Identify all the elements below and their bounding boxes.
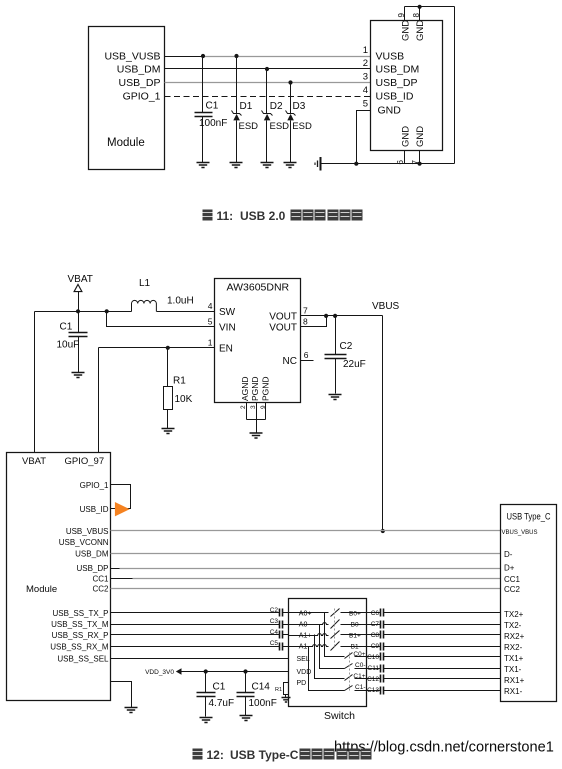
wire GPIO_1 to USB_ID loop bbox=[111, 485, 131, 509]
svg-text:Module: Module bbox=[26, 584, 57, 595]
net label VDD_3V0 with arrow bbox=[145, 668, 181, 676]
wire USB_SS_TX_M bbox=[111, 624, 289, 626]
svg-text:GND: GND bbox=[415, 20, 426, 41]
node junction VBAT/C1 bbox=[76, 309, 80, 313]
svg-text:6: 6 bbox=[304, 350, 309, 360]
svg-text:GND: GND bbox=[378, 105, 402, 117]
ground (under C1 4.7uF) bbox=[200, 718, 213, 723]
svg-text:USB Type-C: USB Type-C bbox=[230, 748, 299, 762]
svg-text:C1: C1 bbox=[206, 101, 219, 112]
switch arm B0+ bbox=[331, 609, 340, 617]
node junction pin7/bottom rail bbox=[418, 162, 422, 166]
wire VOUT pin7 bbox=[301, 315, 383, 317]
wire USB_SS_TX_P bbox=[111, 612, 289, 614]
switch arm C0- bbox=[345, 664, 353, 669]
capacitor C14 100nF bbox=[237, 672, 277, 716]
IC U2 rotated bottom pin numbers 2 3 9 bbox=[240, 405, 267, 409]
svg-text:USB_DM: USB_DM bbox=[376, 64, 420, 76]
svg-text:RX2-: RX2- bbox=[504, 643, 523, 652]
svg-text:USB Type_C: USB Type_C bbox=[507, 512, 551, 522]
wire USB_DM bus (gray) bbox=[111, 553, 501, 555]
wire A1- (hops) bbox=[289, 645, 329, 647]
svg-text:VIN: VIN bbox=[219, 323, 236, 334]
svg-text:C0-: C0- bbox=[355, 662, 365, 669]
ground (under D2) bbox=[261, 163, 274, 168]
svg-text:C6: C6 bbox=[371, 610, 380, 617]
svg-text:GPIO_1: GPIO_1 bbox=[123, 91, 161, 103]
svg-text:ESD: ESD bbox=[292, 121, 312, 132]
wire C1- stub bbox=[355, 690, 367, 692]
svg-text:SW: SW bbox=[219, 307, 236, 318]
svg-text:11:: 11: bbox=[217, 209, 234, 223]
capacitor C1 10uF bbox=[57, 312, 88, 373]
wire A0+ bbox=[289, 612, 329, 614]
module U1 name label bbox=[107, 137, 145, 149]
svg-text:L1: L1 bbox=[139, 278, 151, 289]
node junction C1/USB_VUSB bbox=[201, 54, 205, 58]
svg-text:VBUS_VBUS: VBUS_VBUS bbox=[502, 530, 538, 536]
svg-text:USB_ID: USB_ID bbox=[376, 91, 414, 103]
wire A1+ (hops) bbox=[289, 634, 329, 636]
svg-text:D1: D1 bbox=[240, 101, 253, 112]
svg-text:7: 7 bbox=[303, 305, 308, 315]
svg-text:USB_SS_SEL: USB_SS_SEL bbox=[57, 654, 109, 663]
wire CC1 bus bbox=[111, 578, 501, 580]
svg-text:5: 5 bbox=[208, 317, 213, 327]
svg-text:2: 2 bbox=[363, 58, 368, 69]
node junction C1/VDD_3V0 bbox=[204, 669, 208, 673]
svg-text:A0+: A0+ bbox=[299, 611, 312, 618]
node junction VIN branch bbox=[105, 309, 109, 313]
wire VDD_3V0 bbox=[181, 671, 289, 673]
IC U2 name bbox=[227, 281, 290, 293]
wire VBAT rail bbox=[35, 311, 132, 313]
svg-text:10K: 10K bbox=[175, 394, 193, 405]
svg-text:PGND: PGND bbox=[250, 376, 260, 401]
svg-text:VUSB: VUSB bbox=[376, 51, 405, 63]
wire B0- stub bbox=[341, 624, 367, 626]
wire USB_VUSB (black segment) bbox=[165, 56, 203, 58]
capacitor C4 (series on RX_P) bbox=[270, 629, 283, 639]
resistor R1 10K bbox=[164, 348, 193, 429]
connector J1 USB (box) bbox=[371, 21, 443, 151]
svg-text:B0-: B0- bbox=[351, 621, 361, 628]
wire top gnd rail bbox=[405, 6, 455, 8]
svg-text:VDD_3V0: VDD_3V0 bbox=[145, 669, 174, 676]
wire C0- stub bbox=[355, 668, 367, 670]
module U3 (bottom Module box) bbox=[7, 453, 111, 701]
svg-text:USB_SS_TX_P: USB_SS_TX_P bbox=[52, 609, 108, 618]
wire RX2+ with capacitor C8 bbox=[367, 631, 501, 640]
caption figure 11 bbox=[203, 209, 363, 223]
capacitor C1 100nF bbox=[195, 57, 228, 163]
svg-text:VDD: VDD bbox=[297, 669, 312, 676]
wire module gnd pin bbox=[111, 682, 132, 708]
ground (under IC U2) bbox=[250, 433, 263, 438]
diode D2 ESD bbox=[262, 69, 290, 163]
switch U4 left pin names bbox=[297, 611, 312, 687]
svg-text:4.7uF: 4.7uF bbox=[209, 698, 235, 709]
inductor L1 1.0uH bbox=[132, 278, 194, 312]
svg-text:USB_ID: USB_ID bbox=[80, 505, 109, 514]
svg-text:TX2-: TX2- bbox=[504, 621, 522, 630]
wire TX1- with capacitor C11 bbox=[367, 665, 501, 673]
wire RX1- with capacitor C13 bbox=[367, 687, 501, 695]
capacitor C3 (series on TX_M) bbox=[270, 618, 283, 629]
wire VBAT rail down to module pin bbox=[34, 312, 36, 453]
svg-text:ESD: ESD bbox=[270, 121, 290, 132]
IC U2 pin numbers left 4 5 1 bbox=[208, 301, 213, 348]
svg-text:USB_VCONN: USB_VCONN bbox=[59, 538, 109, 547]
svg-text:USB_VBUS: USB_VBUS bbox=[66, 527, 109, 536]
ground (sideways at left of bottom rail) bbox=[315, 157, 321, 171]
svg-text:TX1-: TX1- bbox=[504, 665, 522, 674]
svg-text:C1: C1 bbox=[213, 681, 226, 692]
wire VOUT pin8 riser bbox=[301, 316, 327, 327]
svg-text:USB_SS_RX_P: USB_SS_RX_P bbox=[52, 631, 109, 640]
wire RX2- with capacitor C9 bbox=[367, 643, 501, 651]
svg-text:C0+: C0+ bbox=[353, 651, 365, 658]
node junction C14/VDD_3V0 bbox=[243, 669, 247, 673]
wire bottom gnd rail bbox=[321, 163, 455, 165]
node junction pin5/bottom rail bbox=[354, 162, 358, 166]
svg-text:GPIO_97: GPIO_97 bbox=[65, 456, 105, 467]
IC U2 left pin names bbox=[219, 307, 236, 355]
gang dashed link (C side) bbox=[349, 653, 351, 692]
wire B1- stub bbox=[341, 646, 367, 648]
switch arm C0+ bbox=[345, 653, 353, 659]
wire USB_DP (gray) bbox=[165, 82, 371, 84]
svg-text:C14: C14 bbox=[252, 681, 271, 692]
svg-text:VOUT: VOUT bbox=[269, 311, 297, 322]
watermark bbox=[334, 740, 554, 756]
svg-text:VOUT: VOUT bbox=[269, 322, 297, 333]
resistor R1 (pull-down at switch PD) bbox=[275, 683, 289, 698]
capacitor C2 22uF bbox=[325, 316, 366, 394]
ground (under C1) bbox=[197, 163, 210, 168]
wire TX2+ with capacitor C6 bbox=[367, 609, 501, 618]
module U3 top pin labels VBAT GPIO_97 bbox=[22, 456, 104, 467]
capacitor C1 4.7uF bbox=[197, 672, 235, 717]
wire USB_SS_RX_P bbox=[111, 634, 289, 636]
svg-text:GND: GND bbox=[415, 126, 426, 147]
wire USB_SS_SEL bbox=[111, 658, 289, 660]
svg-text:3: 3 bbox=[250, 405, 257, 409]
svg-text:5: 5 bbox=[363, 99, 368, 110]
svg-text:USB_DM: USB_DM bbox=[117, 64, 161, 76]
svg-text:C1-: C1- bbox=[355, 684, 365, 691]
wire B1+ stub bbox=[341, 634, 367, 636]
wire VIN branch bbox=[107, 312, 215, 327]
wire CC2 bus (gray) bbox=[111, 588, 501, 590]
svg-text:C12: C12 bbox=[367, 676, 379, 683]
wire C0+ stub bbox=[355, 656, 367, 658]
connector J2 name bbox=[507, 512, 551, 522]
wire USB_DM bbox=[165, 68, 371, 70]
switch arm C1+ bbox=[345, 675, 353, 681]
wire VBUS down to USB_VBUS bus bbox=[382, 316, 384, 531]
svg-text:1.0uH: 1.0uH bbox=[167, 295, 194, 306]
svg-text:12:: 12: bbox=[207, 748, 224, 762]
wire GPIO_97 riser bbox=[98, 348, 100, 453]
svg-text:EN: EN bbox=[219, 343, 233, 354]
ground (under D1) bbox=[230, 163, 243, 168]
svg-text:CC2: CC2 bbox=[504, 585, 521, 594]
svg-text:C11: C11 bbox=[368, 665, 380, 672]
wire pin9 stub top bbox=[404, 7, 406, 21]
ground (under R1) bbox=[162, 429, 175, 434]
capacitor C2 (series on TX_P) bbox=[270, 607, 283, 617]
switch arm B1- bbox=[331, 642, 340, 651]
svg-text:AW3605DNR: AW3605DNR bbox=[227, 281, 290, 293]
connector J1 rotated GND labels top bbox=[400, 20, 426, 41]
ground (under C1 10uF) bbox=[72, 373, 85, 378]
wire A0- drop to C0- bbox=[320, 625, 345, 669]
node junction VBUS/USB_VBUS bbox=[381, 529, 385, 533]
svg-text:USB_DP: USB_DP bbox=[118, 77, 160, 89]
switch U4 name label bbox=[324, 710, 355, 722]
svg-text:Module: Module bbox=[107, 137, 145, 149]
connector J1 rotated GND labels bottom bbox=[400, 126, 426, 147]
svg-text:10uF: 10uF bbox=[57, 339, 80, 350]
svg-text:1: 1 bbox=[363, 45, 368, 56]
wire A0+ drop to C0+ bbox=[325, 613, 345, 657]
node junction D2/USB_DM bbox=[265, 67, 269, 71]
wire pin8 stub top bbox=[419, 7, 421, 21]
svg-text:TX1+: TX1+ bbox=[504, 654, 524, 663]
module U3 name label bbox=[26, 584, 57, 595]
switch arm B0- bbox=[331, 620, 340, 629]
connector J1 rotated pin numbers 6 7 bottom bbox=[396, 160, 420, 165]
svg-text:C8: C8 bbox=[371, 632, 380, 639]
wire L1 to SW pin bbox=[157, 311, 215, 313]
wire IC U2 bottom gnd pins bbox=[247, 403, 266, 433]
wire C1+ stub bbox=[355, 678, 367, 680]
svg-text:C1: C1 bbox=[60, 321, 73, 332]
wire GPIO_1 (dashed) bbox=[165, 96, 371, 98]
power symbol VBAT bbox=[68, 274, 93, 312]
svg-text:GPIO_1: GPIO_1 bbox=[80, 481, 109, 490]
svg-text:3: 3 bbox=[363, 72, 368, 83]
svg-text:GND: GND bbox=[400, 20, 411, 41]
module U1 (top Module box) bbox=[89, 27, 165, 170]
svg-text:22uF: 22uF bbox=[343, 359, 366, 370]
svg-text:C4: C4 bbox=[270, 629, 279, 636]
node junction D1/USB_VUSB bbox=[234, 54, 238, 58]
diode D3 ESD bbox=[286, 83, 312, 163]
svg-text:4: 4 bbox=[363, 85, 368, 96]
svg-text:C1+: C1+ bbox=[353, 673, 365, 680]
svg-text:4: 4 bbox=[208, 301, 213, 311]
svg-text:USB_SS_RX_M: USB_SS_RX_M bbox=[50, 642, 109, 651]
node junction R1/EN bbox=[166, 346, 170, 350]
marker USB_ID orange arrow bbox=[115, 502, 130, 516]
svg-text:D+: D+ bbox=[504, 564, 515, 573]
switch U4 right pin names C bbox=[353, 651, 365, 691]
svg-text:CC1: CC1 bbox=[504, 575, 521, 584]
svg-text:CC1: CC1 bbox=[92, 575, 109, 584]
IC U2 pin numbers right 7 8 6 bbox=[303, 305, 309, 359]
svg-text:USB_VUSB: USB_VUSB bbox=[104, 51, 160, 63]
svg-text:100nF: 100nF bbox=[249, 698, 277, 709]
wire EN bbox=[99, 347, 215, 349]
wire TX2- with capacitor C7 bbox=[367, 621, 501, 629]
svg-text:R1: R1 bbox=[173, 376, 186, 387]
connector J2 pin VBUS_VBUS bbox=[502, 530, 538, 536]
svg-text:B0+: B0+ bbox=[349, 610, 361, 617]
svg-text:CC2: CC2 bbox=[92, 585, 109, 594]
connector J1 pin numbers 1-5 bbox=[363, 45, 368, 110]
svg-text:RX1+: RX1+ bbox=[504, 676, 525, 685]
wire right gnd rail bbox=[454, 7, 456, 164]
diode D1 ESD bbox=[232, 57, 259, 163]
switch arm C1- bbox=[345, 686, 353, 691]
svg-text:AGND: AGND bbox=[240, 376, 250, 401]
wire B0+ stub bbox=[341, 612, 367, 614]
IC U2 right pin names bbox=[269, 311, 297, 367]
module U3 right pin labels bbox=[50, 481, 109, 663]
svg-text:NC: NC bbox=[283, 356, 297, 367]
ground (under C2) bbox=[329, 395, 342, 400]
node junction D3/USB_DP bbox=[288, 80, 292, 84]
ground (under R1 pull-down) bbox=[282, 698, 291, 703]
svg-text:VBUS: VBUS bbox=[372, 301, 400, 312]
wire pin7 stub bottom bbox=[419, 151, 421, 164]
connector J2 USB Type_C (box) bbox=[501, 505, 557, 702]
svg-text:USB 2.0: USB 2.0 bbox=[240, 209, 286, 223]
svg-text:B1-: B1- bbox=[351, 643, 361, 650]
ground (under D3) bbox=[284, 163, 297, 168]
svg-text:PD: PD bbox=[297, 680, 307, 687]
wire USB_VBUS bus (gray) bbox=[111, 530, 501, 532]
wire USB_SS_RX_M bbox=[111, 646, 289, 648]
svg-text:TX2+: TX2+ bbox=[504, 610, 524, 619]
svg-text:ESD: ESD bbox=[239, 121, 259, 132]
node junction pin8/pin7 bbox=[324, 314, 328, 318]
svg-text:SEL: SEL bbox=[297, 656, 310, 663]
svg-text:1: 1 bbox=[208, 337, 213, 347]
svg-text:D-: D- bbox=[504, 550, 513, 559]
svg-text:RX1-: RX1- bbox=[504, 687, 523, 696]
wire A0- (hop over A0+ drop) bbox=[289, 623, 329, 625]
wire TX1+ with capacitor C10 bbox=[367, 653, 501, 662]
svg-text:8: 8 bbox=[303, 316, 308, 326]
ground (module bottom right) bbox=[125, 708, 138, 713]
switch arm B1+ bbox=[331, 631, 340, 639]
node junction pin8/top rail bbox=[418, 5, 422, 9]
wire A1- drop to C1- bbox=[309, 647, 345, 691]
svg-text:D2: D2 bbox=[270, 101, 283, 112]
switch U4 right pin names B bbox=[349, 610, 361, 650]
IC U2 AW3605DNR (box) bbox=[215, 279, 301, 403]
net label VBUS bbox=[372, 301, 400, 312]
svg-text:GND: GND bbox=[400, 126, 411, 147]
wire A1+ drop to C1+ bbox=[315, 635, 345, 679]
svg-text:100nF: 100nF bbox=[199, 118, 227, 129]
connector J1 pin names bbox=[376, 51, 420, 117]
wire USB_VUSB (gray segment to connector) bbox=[203, 56, 371, 58]
svg-text:USB_SS_TX_M: USB_SS_TX_M bbox=[51, 620, 109, 629]
gang dashed link (B side) bbox=[334, 609, 336, 649]
wire RX1+ with capacitor C12 bbox=[367, 675, 501, 684]
caption figure 12 bbox=[193, 748, 372, 762]
svg-text:B1+: B1+ bbox=[349, 632, 361, 639]
ground (under C14) bbox=[240, 716, 253, 721]
svg-text:USB_DP: USB_DP bbox=[76, 564, 108, 573]
IC U2 rotated bottom pin names AGND PGND PGND bbox=[240, 376, 270, 401]
wire pin5 GND to bottom rail bbox=[357, 111, 371, 164]
svg-text:C5: C5 bbox=[270, 640, 279, 647]
wire NC stub bbox=[301, 360, 314, 362]
svg-text:R1: R1 bbox=[275, 687, 282, 693]
wire USB_DP bus bbox=[111, 568, 501, 570]
svg-text:D3: D3 bbox=[293, 101, 306, 112]
connector J2 pin names bbox=[504, 550, 525, 696]
svg-text:C3: C3 bbox=[270, 618, 279, 625]
svg-text:VBAT: VBAT bbox=[22, 456, 46, 467]
wire pin6 stub bottom bbox=[404, 151, 406, 164]
svg-text:RX2+: RX2+ bbox=[504, 632, 525, 641]
svg-text:Switch: Switch bbox=[324, 710, 355, 722]
svg-text:USB_DM: USB_DM bbox=[75, 550, 109, 559]
svg-text:C9: C9 bbox=[371, 643, 380, 650]
svg-text:USB_DP: USB_DP bbox=[376, 77, 418, 89]
switch U4 (box) bbox=[289, 599, 367, 707]
svg-text:C13: C13 bbox=[367, 687, 379, 694]
capacitor C5 (series on RX_M) bbox=[270, 640, 283, 651]
svg-text:C10: C10 bbox=[367, 654, 379, 661]
svg-text:PGND: PGND bbox=[260, 376, 270, 401]
svg-text:C7: C7 bbox=[371, 621, 380, 628]
svg-text:VBAT: VBAT bbox=[68, 274, 93, 285]
svg-text:C2: C2 bbox=[340, 341, 353, 352]
connector J1 rotated pin numbers 9 8 top bbox=[397, 13, 421, 18]
svg-text:C2: C2 bbox=[270, 607, 279, 614]
node junction C2/VOUT bbox=[333, 314, 337, 318]
module U1 pin labels bbox=[104, 51, 160, 103]
